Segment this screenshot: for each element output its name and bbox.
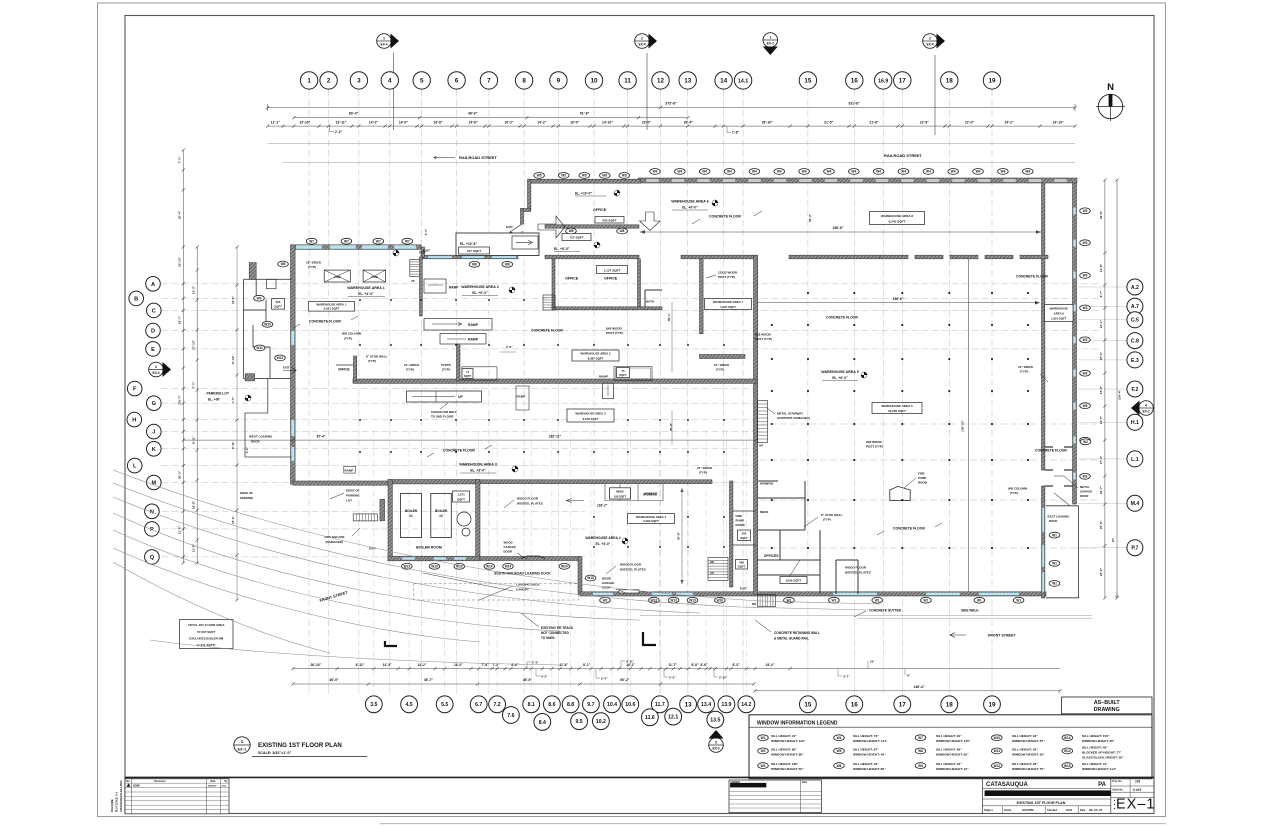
svg-text:17: 17: [899, 702, 907, 709]
right row bubbles: [1127, 279, 1143, 295]
svg-text:EL. +10’-6”: EL. +10’-6”: [460, 242, 477, 246]
svg-text:W9: W9: [918, 764, 923, 768]
svg-text:21’-5”: 21’-5”: [824, 121, 834, 125]
svg-text:WAREHOUSE AREA 7: WAREHOUSE AREA 7: [713, 300, 744, 304]
ramp mid vertical: [516, 386, 529, 410]
window tags W5 office top: [534, 173, 545, 179]
svg-text:Revisions: Revisions: [154, 780, 166, 783]
svg-text:SCS: SCS: [222, 785, 227, 787]
svg-text:WINDOW HEIGHT: 46”: WINDOW HEIGHT: 46”: [853, 752, 886, 756]
dim 55-1 rotated: [671, 302, 673, 372]
svg-text:14’-1”: 14’-1”: [1099, 319, 1103, 328]
svg-text:13.4: 13.4: [701, 702, 711, 708]
svg-text:W3: W3: [1083, 241, 1088, 245]
svg-text:(SUPPORT DAMAGED): (SUPPORT DAMAGED): [777, 416, 810, 420]
svg-text:OFFICE: OFFICE: [565, 277, 579, 281]
svg-text:M.4: M.4: [1131, 501, 1140, 507]
svg-text:1: 1: [307, 78, 311, 85]
svg-text:W7: W7: [405, 239, 410, 243]
ramp west1: [344, 466, 356, 473]
svg-text:W5: W5: [582, 174, 587, 178]
west annex structure: [244, 279, 292, 378]
title block bottom row: [1001, 806, 1003, 814]
vestibule 317sqft walls: [456, 233, 539, 256]
section marker 2/EX-4 top right: [923, 34, 938, 49]
svg-text:13’-9”: 13’-9”: [1099, 385, 1103, 394]
warehouse area 4 sqft box: [628, 514, 675, 524]
boiler room walls: [388, 480, 480, 484]
east loading dock outline: [1046, 506, 1079, 598]
svg-text:W1: W1: [1052, 533, 1057, 537]
svg-text:W13: W13: [1064, 736, 1071, 740]
svg-text:8,378 SQFT: 8,378 SQFT: [583, 417, 599, 421]
svg-text:16” BRICK: 16” BRICK: [1018, 365, 1034, 369]
svg-text:24’-2”: 24’-2”: [1005, 121, 1015, 125]
svg-text:08/06/07: 08/06/07: [208, 785, 217, 787]
svg-text:WAREHOUSE AREA 3: WAREHOUSE AREA 3: [459, 463, 496, 467]
mid long wall y256 segments: [421, 255, 518, 259]
svg-text:4.5: 4.5: [405, 702, 412, 708]
svg-text:1026 SQFT: 1026 SQFT: [786, 579, 802, 583]
svg-text:UP: UP: [710, 571, 714, 575]
window tags boiler south: [402, 563, 413, 569]
svg-text:6: 6: [455, 78, 459, 85]
svg-text:EL. +3’-0”: EL. +3’-0”: [470, 469, 486, 473]
boiler 1: [401, 494, 422, 538]
railroad street upper edge lines: [268, 143, 1076, 145]
svg-text:2’-6”: 2’-6”: [506, 345, 513, 349]
west interior wall x355: [354, 356, 357, 381]
top dimension line overall 373-8 / 331-8: [268, 107, 1076, 109]
horizontal row grid lines (west): [162, 283, 1101, 285]
fire escape: [353, 514, 377, 521]
svg-text:CONCRETE GUTTER: CONCRETE GUTTER: [869, 609, 902, 613]
svg-text:(TYP.): (TYP.): [344, 337, 352, 341]
svg-text:ROOM: ROOM: [918, 481, 928, 485]
svg-text:NONE: NONE: [133, 784, 140, 787]
svg-text:WOMENS: WOMENS: [760, 482, 773, 486]
svg-text:WINDOW HEIGHT: 85”: WINDOW HEIGHT: 85”: [936, 752, 969, 756]
inner dim 87-4 and 182-11: [183, 439, 756, 441]
svg-text:14’-0”: 14’-0”: [454, 663, 463, 667]
stair mid small: [543, 295, 555, 310]
svg-text:14.1: 14.1: [738, 78, 748, 84]
svg-text:19,250 SQFT: 19,250 SQFT: [888, 409, 906, 413]
svg-text:FRONT STREET: FRONT STREET: [988, 634, 1016, 638]
ramp upper small: [424, 279, 446, 293]
svg-text:CONCRETE FLOOR: CONCRETE FLOOR: [443, 449, 475, 453]
mid band wall y381: [353, 379, 756, 383]
svg-text:136’-6”: 136’-6”: [893, 297, 904, 301]
legend column 5: [1062, 735, 1073, 741]
svg-text:2 of 5: 2 of 5: [1133, 788, 1142, 792]
svg-text:W8: W8: [505, 263, 510, 267]
north arrow: [1096, 94, 1125, 121]
svg-text:727 SQFT: 727 SQFT: [569, 236, 583, 240]
warehouse area 3 sqft box: [567, 409, 614, 422]
svg-text:C.8: C.8: [1131, 338, 1139, 344]
svg-text:45’-9”: 45’-9”: [523, 678, 533, 682]
window tags W4 north row: [650, 169, 661, 175]
svg-text:8.4: 8.4: [539, 720, 546, 726]
svg-text:55’-1”: 55’-1”: [667, 312, 671, 321]
svg-text:CATASAUQUA: CATASAUQUA: [986, 782, 1028, 788]
metal stairway: [758, 401, 768, 443]
svg-text:WOOD FLOOR: WOOD FLOOR: [620, 563, 642, 567]
svg-text:W5: W5: [561, 174, 566, 178]
svg-text:15: 15: [804, 78, 812, 85]
svg-text:W1: W1: [1052, 562, 1057, 566]
svg-text:EL. +10’-0”: EL. +10’-0”: [575, 192, 592, 196]
svg-text:15’-10”: 15’-10”: [178, 257, 182, 268]
svg-text:43’-6”: 43’-6”: [677, 531, 681, 540]
svg-text:EXISTING 1ST FLOOR PLAN: EXISTING 1ST FLOOR PLAN: [258, 742, 342, 749]
svg-text:W3: W3: [761, 764, 766, 768]
bottom dimension row F 148-4: [755, 690, 1060, 692]
svg-text:W15: W15: [587, 576, 594, 580]
svg-text:F.2: F.2: [1131, 387, 1138, 393]
svg-text:WAREHOUSE AREA 4: WAREHOUSE AREA 4: [585, 536, 620, 540]
svg-text:OFFICE: OFFICE: [338, 368, 350, 372]
svg-text:A: A: [151, 282, 155, 288]
svg-text:W2: W2: [761, 749, 766, 753]
svg-text:2: 2: [155, 365, 157, 369]
svg-text:CONCRETE FLOOR: CONCRETE FLOOR: [1016, 275, 1048, 279]
svg-text:W13: W13: [689, 598, 696, 602]
svg-text:CONCRETE RETAINING WALL: CONCRETE RETAINING WALL: [774, 631, 820, 635]
svg-text:W10: W10: [264, 323, 271, 327]
svg-text:18’-8”: 18’-8”: [192, 500, 196, 509]
svg-text:DOCK: DOCK: [1049, 519, 1058, 523]
svg-text:POST (TYP.): POST (TYP.): [866, 445, 883, 449]
svg-text:8’-1”: 8’-1”: [583, 663, 590, 667]
svg-text:METAL: METAL: [1080, 485, 1090, 489]
svg-text:SQFT: SQFT: [619, 373, 627, 377]
svg-text:WAREHOUSE: WAREHOUSE: [1050, 307, 1068, 311]
svg-text:(TYP.): (TYP.): [1010, 491, 1018, 495]
svg-text:SILL HEIGHT: 41”: SILL HEIGHT: 41”: [1082, 762, 1108, 766]
svg-text:EL. +6’-0”: EL. +6’-0”: [832, 376, 848, 380]
svg-text:22’-0”: 22’-0”: [965, 121, 975, 125]
room by 75sqft: [614, 367, 652, 381]
svg-text:FILE NAME:: FILE NAME:: [111, 799, 114, 812]
svg-text:EAST LOADING: EAST LOADING: [1048, 515, 1071, 519]
svg-text:STEPS: STEPS: [441, 363, 451, 367]
svg-text:AS–BUILT: AS–BUILT: [1094, 700, 1121, 706]
left row bubbles A-Q: [146, 277, 161, 292]
title block company area: [982, 777, 984, 813]
west arrow row500: [566, 500, 584, 502]
svg-text:UP: UP: [411, 279, 415, 283]
svg-text:TO 2ND FLOOR: TO 2ND FLOOR: [431, 415, 454, 419]
svg-text:SQFT: SQFT: [457, 497, 465, 501]
svg-text:EX-4: EX-4: [638, 43, 645, 47]
svg-text:WAREHOUSE AREA 5: WAREHOUSE AREA 5: [821, 370, 858, 374]
svg-text:1: 1: [769, 35, 771, 39]
svg-text:EX-3: EX-3: [152, 371, 159, 375]
svg-text:225: 225: [276, 300, 281, 304]
svg-text:EX-3: EX-3: [712, 747, 719, 751]
svg-text:W/STEEL PLATES: W/STEEL PLATES: [845, 571, 871, 575]
svg-text:14.2: 14.2: [741, 702, 751, 708]
window tags west annex: [278, 261, 289, 267]
svg-text:8X8 WOOD: 8X8 WOOD: [606, 327, 623, 331]
svg-text:2: 2: [929, 36, 931, 40]
svg-text:FIRE: FIRE: [918, 472, 925, 476]
svg-text:8’-11”: 8’-11”: [356, 663, 365, 667]
svg-text:51’-8”: 51’-8”: [580, 111, 590, 115]
svg-text:EXIT: EXIT: [740, 587, 747, 591]
svg-text:EL. +8’-0”: EL. +8’-0”: [554, 247, 570, 251]
svg-text:16’-7”: 16’-7”: [1099, 485, 1103, 494]
svg-text:UP: UP: [759, 444, 763, 448]
svg-text:16’-8”: 16’-8”: [434, 121, 444, 125]
svg-text:7.6: 7.6: [507, 713, 514, 719]
column dots west building: [359, 299, 361, 301]
svg-text:W3: W3: [1083, 475, 1088, 479]
svg-text:CANOPY: CANOPY: [516, 588, 529, 592]
window tags W8 offices: [469, 261, 480, 267]
warehouse area 7 sqft box: [705, 299, 752, 310]
svg-text:1’-8”: 1’-8”: [732, 130, 739, 134]
svg-text:CONVEYOR BELT: CONVEYOR BELT: [431, 410, 457, 414]
window tags W7 row warehouse1: [306, 238, 317, 244]
svg-text:FIRE: FIRE: [736, 514, 743, 518]
svg-text:W4: W4: [752, 170, 757, 174]
svg-text:11’-9”: 11’-9”: [178, 525, 182, 534]
svg-text:W7: W7: [376, 239, 381, 243]
svg-text:8’-8”: 8’-8”: [691, 663, 698, 667]
west annex 225 sqft box: [272, 299, 285, 309]
svg-text:PLOT SCALE: 1=1: PLOT SCALE: 1=1: [116, 791, 119, 812]
svg-text:UP: UP: [458, 395, 463, 399]
svg-text:BOILER ROOM: BOILER ROOM: [416, 546, 442, 550]
svg-text:WOMENS: WOMENS: [644, 492, 657, 496]
svg-text:Sheet No.: Sheet No.: [1112, 789, 1123, 792]
svg-text:MENS: MENS: [616, 490, 624, 494]
svg-text:W8: W8: [569, 229, 574, 233]
svg-text:W4: W4: [926, 170, 931, 174]
svg-text:W14: W14: [1064, 749, 1071, 753]
svg-text:1: 1: [241, 739, 244, 744]
svg-text:METAL STAIRWAY: METAL STAIRWAY: [777, 412, 803, 416]
svg-text:2: 2: [327, 78, 331, 85]
svg-text:SQFT: SQFT: [738, 565, 746, 569]
fire pump room 2 pentagon: [890, 486, 910, 500]
railroad track curves: [113, 470, 880, 665]
svg-text:W5: W5: [537, 174, 542, 178]
svg-text:8’-6”: 8’-6”: [511, 663, 518, 667]
svg-text:DN: DN: [752, 602, 756, 606]
stairs south small: [758, 595, 776, 607]
svg-text:POST (TYP.): POST (TYP.): [606, 331, 623, 335]
svg-text:14’-5”: 14’-5”: [383, 663, 392, 667]
left inner small dims: [236, 247, 238, 600]
svg-text:WINDOW HEIGHT: 87”: WINDOW HEIGHT: 87”: [1012, 739, 1045, 743]
svg-text:RAMP: RAMP: [468, 338, 479, 342]
office block top wall: [529, 179, 641, 183]
svg-text:CONCRETE FLOOR: CONCRETE FLOOR: [709, 215, 741, 219]
svg-text:RAILROAD STREET: RAILROAD STREET: [459, 155, 498, 160]
svg-text:W5: W5: [622, 174, 627, 178]
svg-text:SOUTH RAILROAD LOADING DOCK: SOUTH RAILROAD LOADING DOCK: [494, 572, 551, 576]
svg-text:3’-7”: 3’-7”: [843, 674, 850, 678]
svg-text:Date: Date: [802, 781, 808, 784]
svg-text:13.9: 13.9: [721, 702, 731, 708]
svg-text:A.7: A.7: [1131, 304, 1139, 310]
svg-text:10”: 10”: [870, 659, 875, 663]
svg-text:205: 205: [742, 531, 747, 535]
svg-text:PARKING: PARKING: [346, 494, 360, 498]
svg-text:POST (TYP.): POST (TYP.): [718, 275, 735, 279]
svg-text:1,951 SQFT: 1,951 SQFT: [1051, 317, 1067, 321]
svg-text:W4: W4: [677, 170, 682, 174]
svg-text:11’-1”: 11’-1”: [271, 121, 280, 125]
svg-text:RAMP: RAMP: [517, 395, 526, 399]
svg-text:PARKING: PARKING: [240, 496, 254, 500]
svg-text:WAREHOUSE AREA 2: WAREHOUSE AREA 2: [580, 352, 611, 356]
svg-text:EXIT: EXIT: [423, 249, 430, 253]
svg-text:4: 4: [388, 78, 392, 85]
svg-text:BOILER: BOILER: [405, 509, 418, 513]
svg-text:(TYP.): (TYP.): [308, 265, 316, 269]
svg-text:SILL HEIGHT: 73”: SILL HEIGHT: 73”: [853, 734, 879, 738]
boiler 2: [431, 494, 452, 538]
svg-text:4: 4: [1145, 403, 1147, 407]
restrooms mid: [610, 488, 631, 499]
svg-text:14’-10”: 14’-10”: [602, 121, 613, 125]
svg-text:W9: W9: [257, 296, 262, 300]
south wall garage door: [619, 590, 639, 593]
revisions table: [125, 779, 229, 814]
svg-text:W2: W2: [603, 598, 608, 602]
svg-text:EXIT: EXIT: [506, 225, 513, 229]
svg-text:No.: No.: [126, 780, 130, 783]
boiler room tanks: [457, 512, 471, 526]
right row bubble leader lines: [1078, 286, 1127, 288]
svg-text:BATH: BATH: [646, 300, 654, 304]
svg-text:12: 12: [657, 78, 665, 85]
svg-text:#2: #2: [439, 514, 443, 518]
svg-text:625 SQFT: 625 SQFT: [602, 218, 616, 222]
svg-text:3: 3: [357, 78, 361, 85]
vertical column grid lines (top set): [308, 90, 310, 656]
svg-text:W4: W4: [976, 170, 981, 174]
svg-text:17: 17: [899, 78, 907, 85]
svg-text:W6: W6: [837, 764, 842, 768]
svg-text:WAREHOUSE AREA 3: WAREHOUSE AREA 3: [575, 412, 606, 416]
svg-text:SILL HEIGHT: 30”: SILL HEIGHT: 30”: [936, 734, 962, 738]
svg-text:9.7: 9.7: [587, 702, 594, 708]
svg-text:CONCRETE FLOOR: CONCRETE FLOOR: [531, 329, 563, 333]
svg-text:21’-8”: 21’-8”: [920, 121, 930, 125]
svg-text:2’-2”: 2’-2”: [335, 130, 342, 134]
svg-text:W4: W4: [653, 170, 658, 174]
svg-text:E: E: [151, 347, 155, 353]
svg-text:DN: DN: [710, 560, 714, 564]
section marker 4/EX-2 right: [1139, 401, 1154, 416]
svg-text:WINDOW HEIGHT: 144”: WINDOW HEIGHT: 144”: [853, 739, 888, 743]
svg-text:EX-2: EX-2: [1142, 410, 1149, 414]
svg-text:SILL HEIGHT: 87”: SILL HEIGHT: 87”: [853, 747, 879, 751]
svg-text:5.5: 5.5: [441, 702, 448, 708]
svg-text:WB COLUMN: WB COLUMN: [342, 332, 361, 336]
svg-text:SILL HEIGHT: 33”: SILL HEIGHT: 33”: [1012, 734, 1038, 738]
svg-text:PUMP: PUMP: [918, 476, 926, 480]
svg-text:TOTAL 1ST FLOOR AREA: TOTAL 1ST FLOOR AREA: [188, 623, 225, 627]
svg-text:WAREHOUSE AREA 2: WAREHOUSE AREA 2: [461, 285, 498, 289]
exit 74 sqft top: [462, 369, 473, 379]
svg-text:WAREHOUSE AREA 8: WAREHOUSE AREA 8: [881, 214, 914, 218]
section marker 1/EX-2 top down: [763, 33, 778, 48]
svg-text:18: 18: [946, 702, 954, 709]
svg-text:EXISTING 1ST FLOOR PLAN: EXISTING 1ST FLOOR PLAN: [1017, 801, 1066, 805]
svg-text:15’-0”: 15’-0”: [1099, 351, 1103, 360]
svg-text:J: J: [152, 430, 155, 436]
svg-text:EX-4: EX-4: [380, 43, 387, 47]
svg-text:EL. +00’: EL. +00’: [208, 398, 220, 402]
svg-text:(TYP.): (TYP.): [716, 368, 724, 372]
svg-text:14’-2”: 14’-2”: [369, 121, 379, 125]
svg-text:3.5: 3.5: [370, 702, 377, 708]
svg-text:W10: W10: [994, 736, 1001, 740]
svg-text:OFFICE: OFFICE: [604, 277, 618, 281]
svg-text:W/STEEL PLATES: W/STEEL PLATES: [620, 568, 646, 572]
svg-text:13: 13: [684, 78, 692, 85]
svg-text:21’-8”: 21’-8”: [869, 121, 879, 125]
svg-text:19’-7”: 19’-7”: [178, 315, 182, 324]
ramp boxes middle: [424, 319, 492, 331]
svg-text:RAMP: RAMP: [468, 323, 479, 327]
svg-text:WINDOW HEIGHT: 75”: WINDOW HEIGHT: 75”: [1012, 767, 1045, 771]
south step wall: [578, 557, 582, 595]
wall x421 below vestibule: [420, 257, 423, 316]
svg-text:SQFT: SQFT: [274, 305, 282, 309]
svg-text:2’-10”: 2’-10”: [719, 675, 728, 679]
svg-text:6.7: 6.7: [475, 702, 482, 708]
svg-text:W11: W11: [994, 749, 1001, 753]
svg-text:24’-0”: 24’-0”: [766, 663, 775, 667]
warehouse joint line x968: [968, 258, 970, 592]
svg-text:WINDOW HEIGHT: 80”: WINDOW HEIGHT: 80”: [853, 767, 886, 771]
svg-text:W12: W12: [277, 356, 284, 360]
svg-text:EX–1: EX–1: [238, 748, 247, 752]
svg-text:WOOD FLOOR: WOOD FLOOR: [517, 497, 539, 501]
svg-text:4’-11”: 4’-11”: [626, 659, 635, 663]
svg-text:10.4: 10.4: [607, 702, 617, 708]
svg-text:8X8 WOOD: 8X8 WOOD: [755, 333, 772, 337]
svg-text:W1: W1: [924, 598, 929, 602]
svg-text:14’-2”: 14’-2”: [537, 121, 547, 125]
window tags east wall: [1080, 208, 1091, 214]
conveyor belt: [407, 391, 482, 402]
window tags east dock: [1049, 532, 1060, 538]
svg-text:8’-3”: 8’-3”: [732, 663, 739, 667]
svg-text:12X12 WOOD: 12X12 WOOD: [718, 271, 738, 275]
1271 sqft box: [453, 491, 470, 502]
svg-text:8.8: 8.8: [567, 702, 574, 708]
svg-text:WINDOW HEIGHT: 114”: WINDOW HEIGHT: 114”: [1082, 767, 1117, 771]
svg-text:& METAL GUARD RAIL: & METAL GUARD RAIL: [774, 637, 809, 641]
void boxes warehouse1: [324, 270, 350, 282]
svg-text:16’-0”: 16’-0”: [642, 121, 652, 125]
svg-text:EX-2: EX-2: [767, 42, 774, 46]
restroom alcove outline: [605, 484, 663, 501]
svg-text:W8: W8: [918, 749, 923, 753]
svg-text:W11: W11: [256, 346, 263, 350]
svg-text:11.7: 11.7: [655, 702, 665, 708]
svg-text:EX–1: EX–1: [1116, 797, 1155, 813]
